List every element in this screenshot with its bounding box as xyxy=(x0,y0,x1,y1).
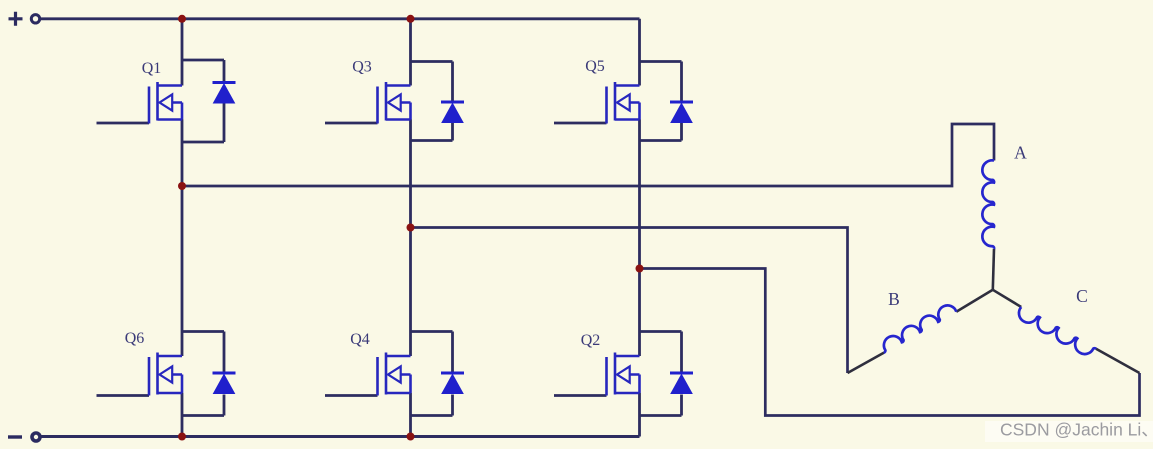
svg-text:Q4: Q4 xyxy=(350,331,370,348)
svg-text:Q5: Q5 xyxy=(585,58,605,75)
svg-text:A: A xyxy=(1014,143,1027,163)
svg-text:C: C xyxy=(1076,286,1088,306)
svg-text:Q6: Q6 xyxy=(125,330,145,347)
svg-text:Q2: Q2 xyxy=(581,332,601,349)
svg-text:CSDN @Jachin Li、: CSDN @Jachin Li、 xyxy=(1000,420,1153,440)
svg-text:Q3: Q3 xyxy=(352,59,372,76)
svg-text:B: B xyxy=(888,289,900,309)
svg-text:Q1: Q1 xyxy=(142,60,162,77)
